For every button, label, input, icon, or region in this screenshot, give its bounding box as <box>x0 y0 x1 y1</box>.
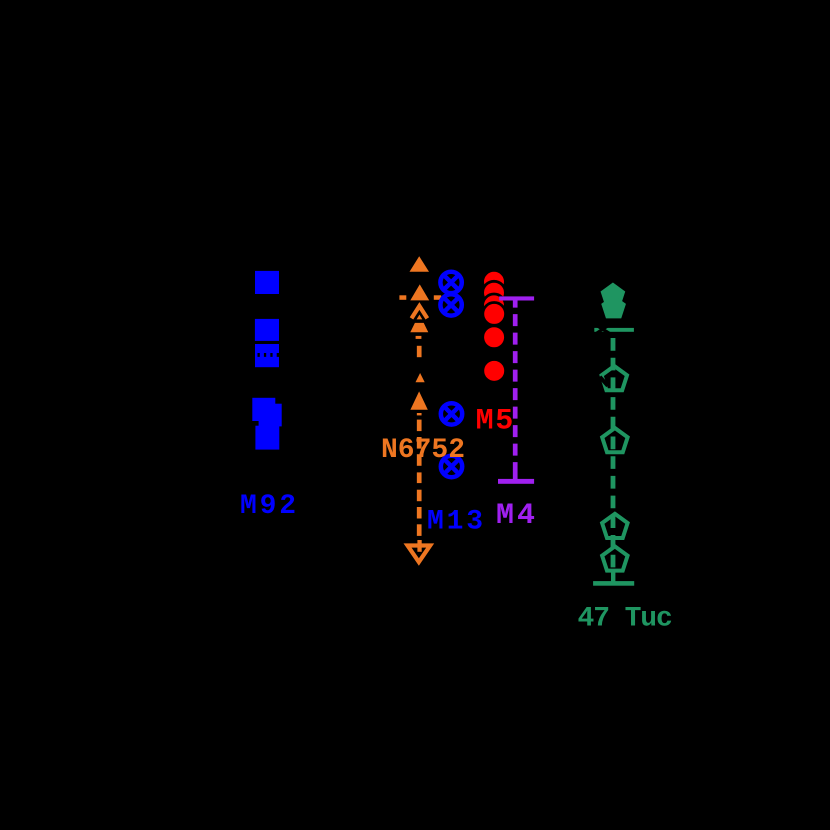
orange horizontal dash right <box>434 295 441 300</box>
red circle 6 <box>483 359 506 382</box>
square M92 point 3 <box>255 344 279 367</box>
red circle 1 <box>483 270 506 293</box>
orange vertical dashed line <box>416 336 422 536</box>
green open pentagon 6 <box>602 546 627 570</box>
purple bottom cap <box>498 479 534 484</box>
circle-x 2 <box>440 294 461 315</box>
green dashed vertical line <box>611 338 616 571</box>
green solid stem bottom <box>611 571 615 582</box>
orange triangle T2 <box>410 284 429 300</box>
svg-text:M5: M5 <box>476 405 515 439</box>
purple solid stub bottom <box>513 470 518 480</box>
squares M92 cluster bottom <box>252 398 275 421</box>
orange trapezoid triangle T5 <box>410 323 428 332</box>
green open pentagon 4 <box>602 428 627 452</box>
green filled pentagon 1 <box>601 283 626 307</box>
svg-text:N6752: N6752 <box>381 435 465 466</box>
orange open triangle T3 <box>412 306 428 318</box>
circle-x 4 <box>441 456 462 477</box>
N6752 series (orange) <box>399 256 441 410</box>
purple top cap <box>499 296 534 300</box>
black caret over green cap <box>595 324 612 334</box>
red circle 5 <box>483 326 506 349</box>
M92 series (blue squares) <box>252 271 281 450</box>
svg-text:M4: M4 <box>496 499 538 533</box>
red circle 3 <box>483 294 506 317</box>
M13 series (blue circle-x markers) <box>440 272 462 478</box>
green top cap <box>594 328 634 332</box>
orange triangle T7 <box>410 391 427 409</box>
square M92 point 1 <box>255 271 279 294</box>
orange triangle T1 <box>410 256 430 272</box>
svg-text:M92: M92 <box>240 491 299 522</box>
circle-x 1 <box>440 272 461 293</box>
M5 series (red circles, black edges), drawn top to bottom <box>483 270 506 382</box>
green open pentagon 3 <box>602 366 627 390</box>
svg-text:47 Tuc: 47 Tuc <box>578 604 673 635</box>
red circle 2 <box>483 281 506 304</box>
green filled pentagon 2 <box>601 295 626 319</box>
green bottom cap <box>593 581 634 586</box>
purple vertical dashed line <box>513 301 518 471</box>
circle-x 3 <box>441 403 462 424</box>
black dotted error bar over square 3 <box>258 353 282 357</box>
orange horizontal dash left <box>399 295 406 300</box>
red circle 4 <box>483 303 506 326</box>
square M92 point 2 <box>255 319 279 341</box>
orange small filled triangle T4 <box>417 315 423 320</box>
black slash over pentagon 3 <box>600 377 608 386</box>
svg-text:M13: M13 <box>427 506 486 537</box>
green open pentagon 5 <box>602 514 627 538</box>
orange small triangle T6 <box>416 373 425 382</box>
M4 (purple) error bar <box>498 296 534 483</box>
orange open arrow triangle bottom <box>417 540 421 552</box>
